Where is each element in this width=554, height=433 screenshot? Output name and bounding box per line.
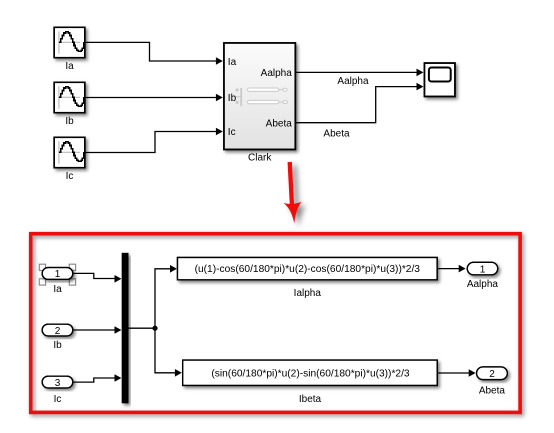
svg-text:(sin(60/180*pi)*u(2)-sin(60/18: (sin(60/180*pi)*u(2)-sin(60/180*pi)*u(3)… <box>211 369 410 380</box>
svg-text:1: 1 <box>480 264 486 275</box>
svg-text:Aalpha: Aalpha <box>467 279 499 290</box>
svg-text:Ic: Ic <box>228 127 236 138</box>
svg-text:Ia: Ia <box>228 57 237 68</box>
svg-text:(u(1)-cos(60/180*pi)*u(2)-cos(: (u(1)-cos(60/180*pi)*u(2)-cos(60/180*pi)… <box>195 264 421 275</box>
svg-text:Abeta: Abeta <box>479 386 506 397</box>
svg-text:2: 2 <box>55 326 61 337</box>
svg-text:Abeta: Abeta <box>266 119 293 130</box>
svg-text:Ib: Ib <box>65 116 74 127</box>
svg-text:Ibeta: Ibeta <box>299 394 322 405</box>
svg-text:3: 3 <box>55 378 61 389</box>
svg-text:1: 1 <box>55 269 61 280</box>
svg-text:Ia: Ia <box>65 61 74 72</box>
svg-text:2: 2 <box>489 369 495 380</box>
svg-text:Ia: Ia <box>53 284 62 295</box>
svg-text:Abeta: Abeta <box>323 129 350 140</box>
svg-text:Ib: Ib <box>228 93 237 104</box>
svg-text:Ic: Ic <box>54 394 62 405</box>
svg-text:Ic: Ic <box>66 171 74 182</box>
svg-text:Ialpha: Ialpha <box>294 288 322 299</box>
svg-text:Clark: Clark <box>248 152 272 163</box>
svg-text:Aalpha: Aalpha <box>261 68 293 79</box>
svg-text:Aalpha: Aalpha <box>337 76 369 87</box>
svg-text:Ib: Ib <box>53 340 62 351</box>
